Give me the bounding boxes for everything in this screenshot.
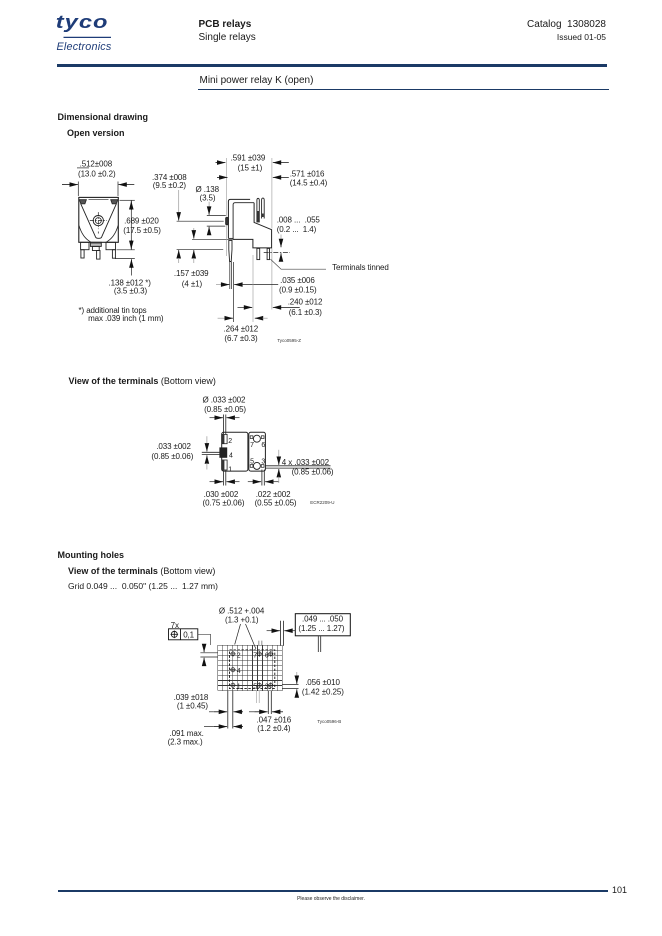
- svg-text:6: 6: [265, 652, 269, 659]
- svg-text:1: 1: [237, 684, 241, 691]
- svg-text:7: 7: [250, 442, 254, 449]
- svg-text:ECR2209-U: ECR2209-U: [310, 500, 334, 505]
- svg-text:.049 ... .050: .049 ... .050: [302, 614, 344, 623]
- svg-text:5: 5: [250, 459, 254, 466]
- front view: relay body outline: [79, 197, 119, 242]
- bottom view: pin1 section lines: [223, 471, 225, 486]
- svg-text:4: 4: [229, 453, 233, 460]
- side view: right extension line: [271, 158, 273, 229]
- header navy rule: [57, 64, 607, 67]
- mounting: dim .056 right: [282, 684, 298, 686]
- mounting: frame leader: [198, 634, 211, 645]
- dim .022 bottom: [248, 481, 254, 483]
- svg-text:.056 ±010: .056 ±010: [305, 678, 340, 687]
- svg-text:(0.9 ±0.15): (0.9 ±0.15): [279, 286, 317, 295]
- svg-text:(0.85 ±0.05): (0.85 ±0.05): [204, 405, 246, 414]
- page number: [612, 885, 627, 895]
- extension line x=233.6: [233, 262, 235, 322]
- side view: bushing (&#216;.138): [226, 217, 229, 224]
- side view: pins: [229, 240, 232, 261]
- svg-text:4 x .033 ±002: 4 x .033 ±002: [282, 458, 330, 467]
- svg-text:(15 ±1): (15 ±1): [238, 164, 263, 173]
- front view: dim .689: [120, 199, 135, 201]
- reference line A: [177, 220, 224, 222]
- bottom view: pin4 pad: [220, 448, 227, 458]
- svg-text:(0.85 ±0.06): (0.85 ±0.06): [292, 467, 334, 476]
- bottom view: top dim arrows: [210, 417, 216, 419]
- mounting: feature control frame: [169, 629, 198, 640]
- svg-text:(1.25 ... 1.27): (1.25 ... 1.27): [298, 624, 345, 633]
- svg-text:7: 7: [253, 652, 257, 659]
- mounting: grid: [218, 645, 282, 691]
- footer navy rule: [58, 890, 608, 893]
- svg-text:Ø .033 ±002: Ø .033 ±002: [203, 396, 247, 405]
- mounting: hole 2: [231, 652, 235, 656]
- tinning level dash line: [264, 251, 290, 253]
- tyco logo: [50, 10, 140, 58]
- svg-text:.571 ±016: .571 ±016: [290, 170, 325, 179]
- disclaimer: [0, 896, 662, 902]
- mounting: dim .091 arrows: [204, 726, 214, 728]
- svg-text:(1.2 ±0.4): (1.2 ±0.4): [257, 724, 291, 733]
- section heading: Dimensional drawing: [58, 112, 149, 122]
- svg-text:.240 ±012: .240 ±012: [288, 298, 323, 307]
- header product titles: [199, 19, 252, 30]
- svg-text:(0.2 ... 1.4): (0.2 ... 1.4): [277, 225, 317, 234]
- mounting: left refs: [200, 652, 217, 654]
- svg-text:Tyco0596-B: Tyco0596-B: [317, 719, 341, 724]
- front view: top corner tabs: [79, 200, 86, 204]
- reference line C: [207, 225, 226, 227]
- svg-text:.033 ±002: .033 ±002: [156, 442, 191, 451]
- bottom view: pin2 section lines: [223, 415, 225, 435]
- svg-text:(2.3 max.): (2.3 max.): [168, 738, 203, 747]
- front view: dim .512 lines: [62, 184, 78, 186]
- svg-text:.264 ±012: .264 ±012: [224, 324, 259, 333]
- svg-text:(0.85 ±0.06): (0.85 ±0.06): [151, 452, 193, 461]
- mounting: hole 4: [231, 668, 235, 672]
- side view: pin extension lines: [229, 262, 231, 289]
- terminals tinned leader: [271, 259, 327, 269]
- svg-text:.157 ±039: .157 ±039: [174, 269, 209, 278]
- svg-text:Tyco0595-Z: Tyco0595-Z: [277, 338, 301, 343]
- svg-text:2: 2: [228, 438, 232, 445]
- svg-text:(17.5 ±0.5): (17.5 ±0.5): [123, 226, 161, 235]
- svg-text:(3.5 ±0.3): (3.5 ±0.3): [114, 287, 148, 296]
- mounting: pitch dim at top: [280, 621, 282, 646]
- bottom view: pin1 pad: [222, 460, 227, 470]
- reference line D: [192, 238, 235, 240]
- svg-text:1: 1: [228, 466, 232, 473]
- bottom view: left body outline: [222, 432, 248, 471]
- mounting: hole 1: [231, 683, 235, 687]
- section heading: Mounting holes: [58, 550, 125, 560]
- side view: left extension line: [225, 158, 227, 217]
- extension line x=253 (dashed gray): [252, 255, 254, 322]
- svg-text:(14.5 ±0.4): (14.5 ±0.4): [290, 179, 328, 188]
- side view: contact springs: [257, 198, 259, 222]
- relay series title: [200, 75, 314, 86]
- svg-text:3: 3: [265, 684, 269, 691]
- svg-text:(13.0 ±0.2): (13.0 ±0.2): [78, 170, 116, 179]
- side view: relay body profile: [228, 199, 250, 238]
- header catalog info: [408, 19, 606, 30]
- title underline: [198, 89, 609, 90]
- bottom view: pin3 leader lines: [266, 465, 331, 467]
- mounting: dim .039 arrows: [209, 711, 214, 713]
- mounting: pin1 column lines: [227, 691, 229, 729]
- svg-text:max .039 inch (1 mm): max .039 inch (1 mm): [88, 314, 164, 323]
- svg-text:(1.42 ±0.25): (1.42 ±0.25): [302, 687, 344, 696]
- svg-text:.008 ... .055: .008 ... .055: [277, 215, 321, 224]
- mounting: extended grid columns: [258, 641, 260, 646]
- svg-text:(3.5): (3.5): [200, 193, 216, 202]
- side view: case lower-right wedge: [233, 203, 272, 248]
- front view: internal V contour: [81, 204, 117, 238]
- mounting: grid-box .049/.050: [295, 614, 350, 636]
- svg-text:2: 2: [237, 652, 241, 659]
- svg-text:(6.1 ±0.3): (6.1 ±0.3): [289, 308, 323, 317]
- svg-text:.512±008: .512±008: [80, 160, 113, 169]
- front view: pins: [81, 250, 84, 258]
- svg-text:(4 ±1): (4 ±1): [182, 280, 203, 289]
- bottom view: pads 7/6: [250, 436, 253, 439]
- bottom view: right body outline: [249, 432, 266, 471]
- front view: dim .138 pin length: [115, 258, 135, 260]
- mounting: hole leaders: [235, 624, 241, 645]
- svg-text:.689 ±020: .689 ±020: [124, 217, 159, 226]
- svg-text:.591 ±039: .591 ±039: [231, 154, 266, 163]
- svg-text:(6.7 ±0.3): (6.7 ±0.3): [224, 334, 258, 343]
- svg-text:(1 ±0.45): (1 ±0.45): [177, 702, 208, 711]
- svg-text:(0.55 ±0.05): (0.55 ±0.05): [255, 499, 297, 508]
- reference line E: standoff bottom: [177, 248, 224, 250]
- dim .264: [218, 317, 225, 319]
- svg-text:(9.5 ±0.2): (9.5 ±0.2): [153, 181, 187, 190]
- svg-text:5: 5: [253, 684, 257, 691]
- front view: bottom standoff pads: [81, 242, 89, 249]
- bottom view: pin2 pad: [222, 434, 227, 443]
- dim .035: [216, 284, 222, 286]
- front view: center crosshair boss: [93, 216, 103, 226]
- mounting: dim .047 arrows: [249, 711, 254, 713]
- dim .240: [238, 306, 245, 308]
- dim .033 left: [202, 451, 222, 453]
- svg-text:(1.3 +0.1): (1.3 +0.1): [225, 616, 259, 625]
- svg-text:6: 6: [261, 442, 265, 449]
- mounting: stub lines below box: [317, 636, 319, 652]
- svg-text:.035 ±006: .035 ±006: [280, 276, 315, 285]
- subheading: Open version: [67, 128, 125, 138]
- svg-text:0,1: 0,1: [183, 631, 194, 640]
- svg-text:Ø .512 +.004: Ø .512 +.004: [219, 606, 265, 615]
- dim .030 bottom: [210, 481, 216, 483]
- svg-text:4: 4: [237, 668, 241, 675]
- section heading: View of the terminals (bottom view): [69, 376, 216, 386]
- svg-text:(0.75 ±0.06): (0.75 ±0.06): [203, 499, 245, 508]
- mounting: pin5/3 column lines: [256, 691, 258, 703]
- mounting: dashed outline: [230, 650, 275, 689]
- bottom view: pads 5/3: [250, 465, 253, 468]
- svg-text:3: 3: [261, 459, 265, 466]
- dim 4x.033 arrows: [278, 450, 280, 458]
- reference line B: [207, 215, 226, 217]
- svg-text:Terminals tinned: Terminals tinned: [332, 263, 389, 272]
- bottom view: big holes: [253, 435, 260, 442]
